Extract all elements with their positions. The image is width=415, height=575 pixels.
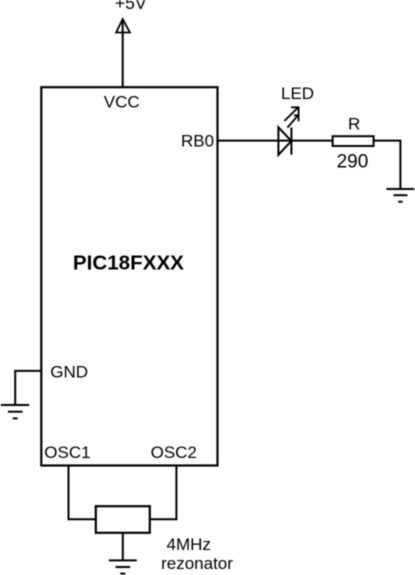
svg-text:rezonator: rezonator [161, 554, 233, 573]
ground (right) [386, 189, 414, 202]
wire OSC1 to resonator [69, 466, 96, 520]
wire RB0 to resistor [218, 140, 333, 142]
resonator X1 body [96, 506, 150, 533]
svg-text:290: 290 [337, 152, 369, 173]
ground (bottom) [109, 560, 137, 573]
svg-text:OSC1: OSC1 [44, 443, 90, 462]
LED emission arrow 2 [287, 115, 299, 128]
LED emission arrow 1 [284, 107, 299, 122]
svg-text:VCC: VCC [104, 92, 140, 111]
wire OSC2 to resonator [150, 466, 177, 520]
svg-text:RB0: RB0 [181, 132, 214, 151]
svg-text:GND: GND [50, 362, 88, 381]
svg-text:R: R [348, 115, 360, 134]
wire VCC supply [122, 19, 124, 87]
LED D1 diode triangle [278, 127, 291, 155]
svg-text:4MHz: 4MHz [167, 535, 211, 554]
resistor R body [333, 136, 374, 146]
svg-text:OSC2: OSC2 [151, 443, 197, 462]
wire GND pin to left ground [15, 371, 41, 405]
svg-text:LED: LED [281, 84, 314, 103]
+5V power arrow [116, 19, 130, 33]
svg-text:+5V: +5V [115, 0, 147, 13]
LED D1 cathode bar [290, 128, 292, 155]
IC U1 PIC18FXXX body [41, 87, 217, 465]
wire resistor to right ground [374, 141, 401, 189]
wire resonator to bottom ground [122, 533, 124, 560]
svg-text:PIC18FXXX: PIC18FXXX [73, 251, 184, 274]
ground (left) [1, 405, 29, 418]
